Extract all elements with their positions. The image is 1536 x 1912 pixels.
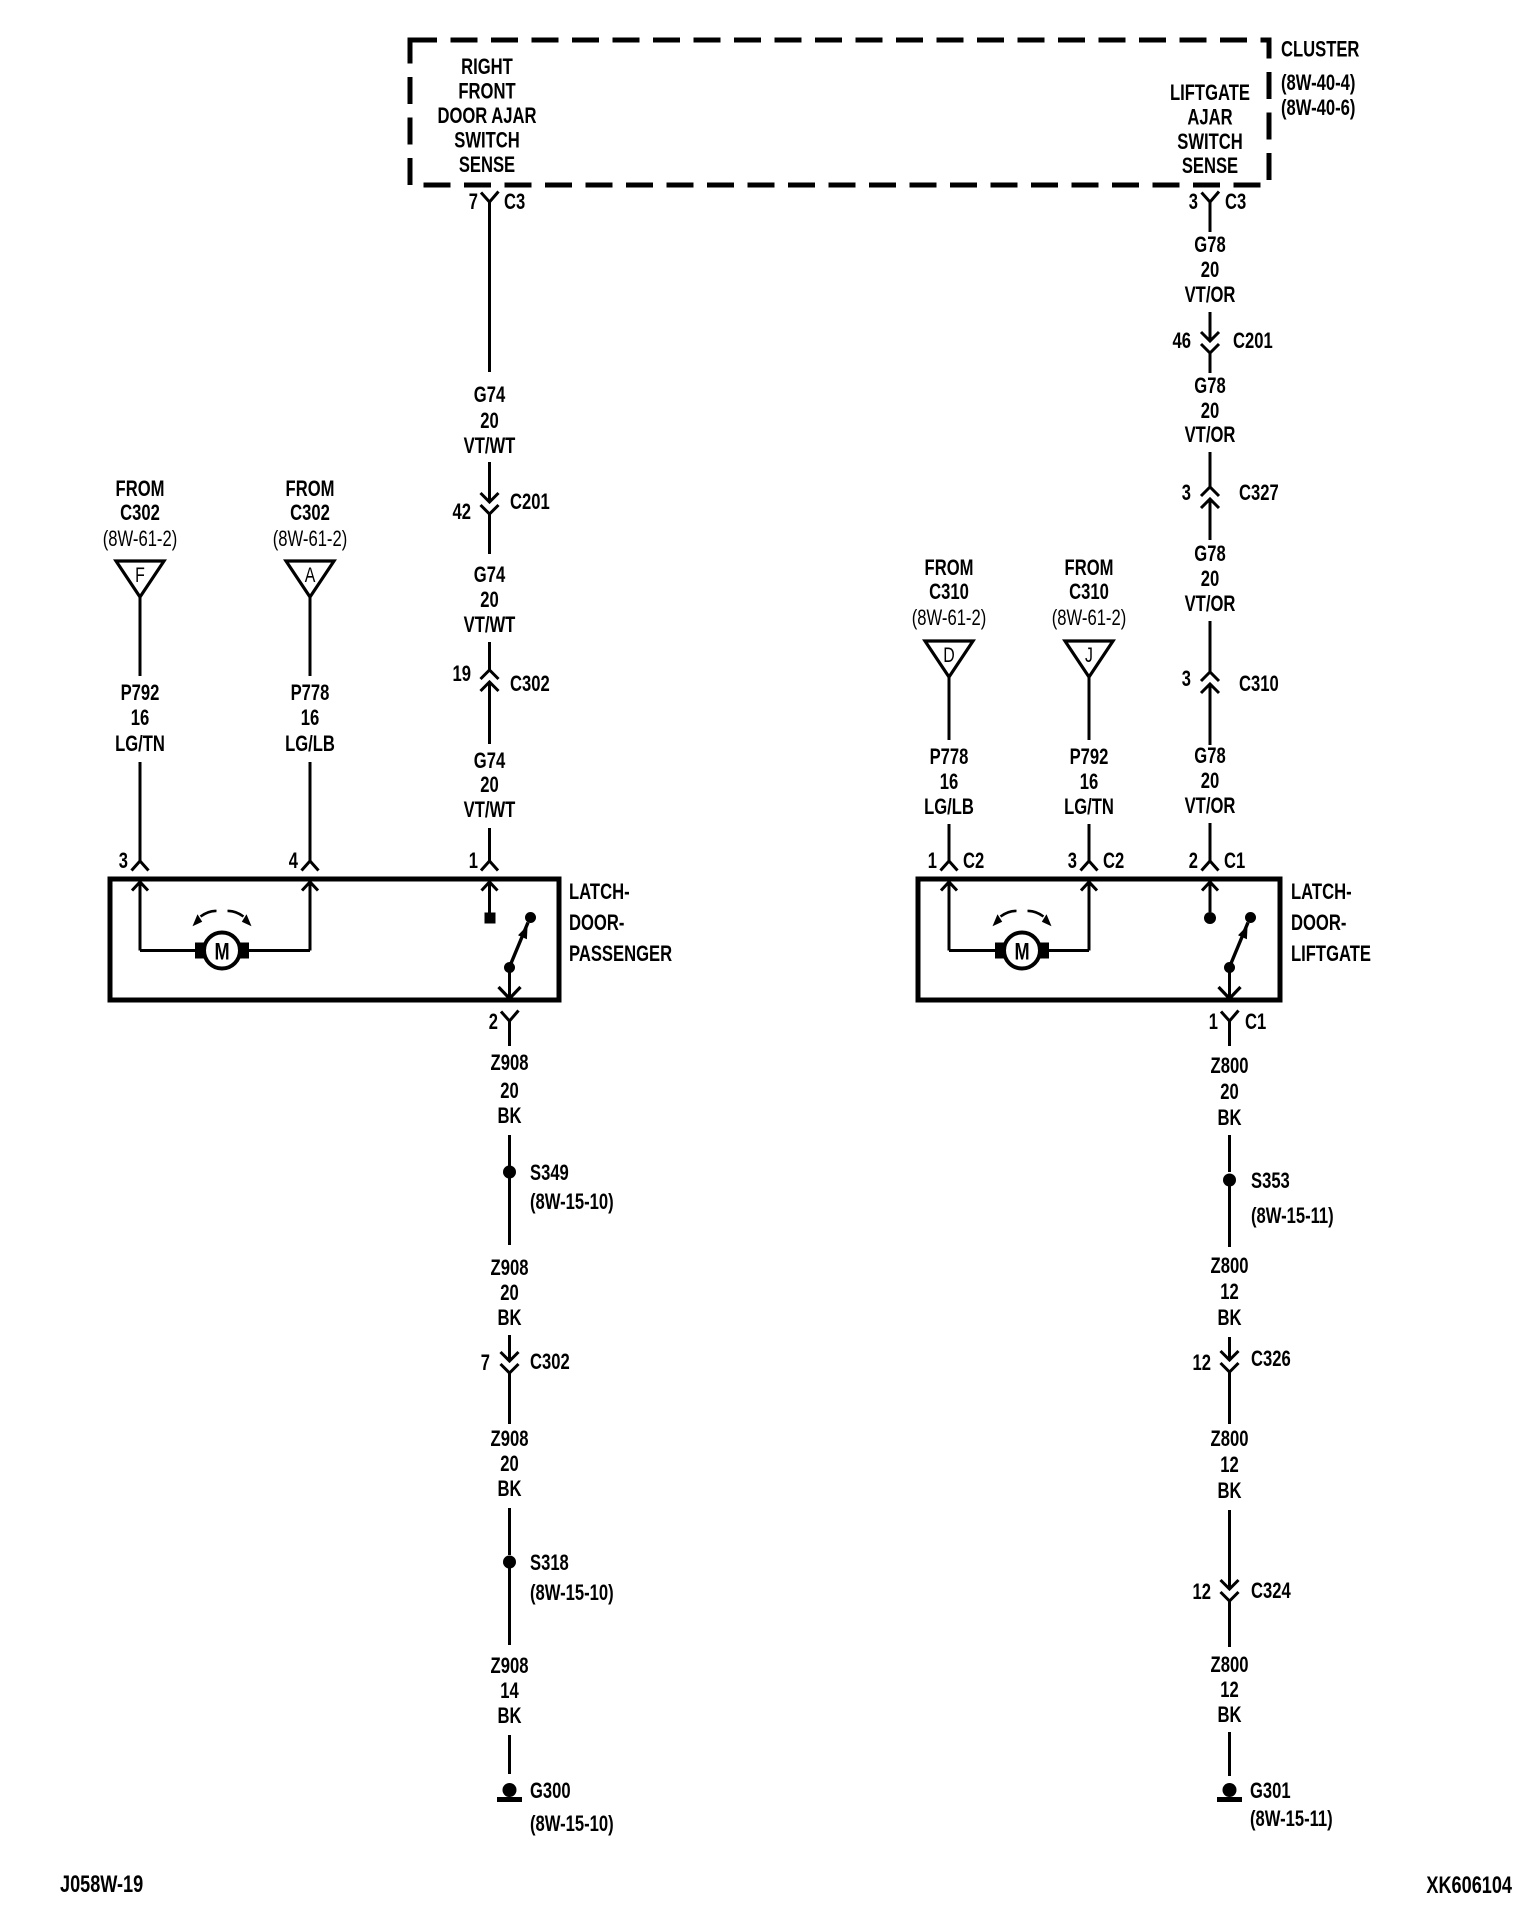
svg-text:C302: C302: [120, 500, 160, 525]
wire: [508, 1568, 511, 1645]
svg-text:BK: BK: [498, 1103, 522, 1128]
svg-text:A: A: [305, 564, 316, 587]
svg-text:P792: P792: [1070, 744, 1109, 769]
motor M passenger latch: [195, 933, 249, 969]
node RIGHT FRONT DOOR AJAR SWITCH SENSE: [437, 54, 536, 177]
wire: [508, 1135, 511, 1166]
wire label Z800 12 BK: [1211, 1426, 1249, 1503]
svg-text:16: 16: [301, 705, 320, 730]
motor M liftgate latch: [995, 933, 1049, 969]
connector C302 cavity 19: [453, 661, 550, 696]
wire label G74 20 VT/WT (middle): [464, 562, 516, 637]
wire label G74 20 VT/WT (upper): [464, 382, 516, 458]
wire: [1228, 1510, 1231, 1589]
connector C302 cavity 7: [481, 1349, 570, 1375]
splice S349: [503, 1160, 569, 1185]
svg-text:1: 1: [928, 848, 937, 873]
svg-text:2: 2: [489, 1009, 498, 1034]
svg-text:3: 3: [1182, 666, 1191, 691]
svg-text:42: 42: [453, 499, 472, 524]
svg-text:LG/LB: LG/LB: [285, 731, 335, 756]
svg-text:7: 7: [469, 189, 478, 214]
svg-text:3: 3: [1068, 848, 1077, 873]
svg-text:(8W-61-2): (8W-61-2): [1052, 605, 1127, 630]
svg-text:SWITCH: SWITCH: [454, 128, 520, 153]
svg-text:G78: G78: [1194, 743, 1225, 768]
node LIFTGATE AJAR SWITCH SENSE: [1170, 80, 1250, 178]
svg-text:BK: BK: [498, 1476, 522, 1501]
svg-text:Z800: Z800: [1211, 1426, 1249, 1451]
svg-text:Z908: Z908: [491, 1426, 529, 1451]
svg-text:J058W-19: J058W-19: [60, 1871, 143, 1898]
svg-text:LIFTGATE: LIFTGATE: [1291, 941, 1371, 966]
wire: [1228, 1135, 1231, 1172]
wire: [1209, 823, 1212, 861]
wire label Z800 20 BK: [1211, 1053, 1249, 1130]
svg-text:C302: C302: [290, 500, 330, 525]
svg-text:Z908: Z908: [491, 1255, 529, 1280]
wire label G78 20 VT/OR: [1185, 743, 1236, 818]
ground G301: [1217, 1778, 1291, 1803]
wire: [1209, 353, 1212, 373]
svg-text:14: 14: [500, 1678, 519, 1703]
drawing number XK606104: [1426, 1872, 1512, 1899]
svg-text:(8W-61-2): (8W-61-2): [103, 526, 178, 551]
svg-text:3: 3: [1182, 480, 1191, 505]
latch liftgate pin 1 C1: [1209, 1009, 1266, 1034]
latch-door-passenger label: [569, 879, 672, 966]
svg-text:G78: G78: [1194, 541, 1225, 566]
svg-text:(8W-61-2): (8W-61-2): [273, 526, 348, 551]
svg-text:BK: BK: [1218, 1702, 1242, 1727]
svg-text:FROM: FROM: [286, 476, 335, 501]
svg-text:C310: C310: [1069, 579, 1109, 604]
wire label Z908 20 BK: [491, 1255, 529, 1330]
wire label P792 16 LG/TN: [1064, 744, 1114, 819]
svg-text:C310: C310: [1239, 671, 1279, 696]
svg-text:12: 12: [1220, 1452, 1239, 1477]
svg-text:PASSENGER: PASSENGER: [569, 941, 672, 966]
svg-text:G301: G301: [1250, 1778, 1291, 1803]
wire G74 upper segment: [488, 202, 491, 372]
svg-text:C3: C3: [1225, 189, 1246, 214]
svg-text:20: 20: [500, 1280, 519, 1305]
wire label Z800 12 BK: [1211, 1652, 1249, 1727]
svg-text:SWITCH: SWITCH: [1177, 129, 1243, 154]
connector C3 pin 7 (cluster, passenger): [469, 189, 525, 214]
wire: [508, 1178, 511, 1245]
connector C326 cavity 12: [1193, 1346, 1291, 1375]
svg-text:C310: C310: [929, 579, 969, 604]
svg-text:Z800: Z800: [1211, 1253, 1249, 1278]
svg-text:12: 12: [1220, 1279, 1239, 1304]
wire: [1209, 621, 1212, 672]
svg-text:S349: S349: [530, 1160, 569, 1185]
cluster reference (8W-40-6): [1281, 95, 1355, 120]
wire: [508, 1508, 511, 1555]
svg-text:RIGHT: RIGHT: [461, 54, 513, 79]
svg-text:7: 7: [481, 1350, 490, 1375]
cluster reference (8W-40-4): [1281, 70, 1355, 95]
ajar switch liftgate: [1202, 882, 1256, 999]
svg-text:SENSE: SENSE: [459, 152, 515, 177]
wire: [508, 1021, 511, 1046]
svg-text:M: M: [1014, 939, 1029, 966]
svg-text:S318: S318: [530, 1550, 569, 1575]
off-page connector F FROM C302: [103, 476, 178, 597]
svg-text:(8W-40-6): (8W-40-6): [1281, 95, 1355, 120]
wire: [508, 1735, 511, 1774]
sheet number J058W-19: [60, 1871, 143, 1898]
svg-text:C302: C302: [510, 671, 550, 696]
svg-text:DOOR AJAR: DOOR AJAR: [437, 103, 536, 128]
ground G301 reference (8W-15-11): [1250, 1806, 1333, 1831]
rotation arrows: [993, 911, 1052, 926]
wire: [488, 682, 491, 744]
svg-text:BK: BK: [1218, 1478, 1242, 1503]
wire: [1088, 677, 1091, 740]
wire label Z908 20 BK: [491, 1050, 529, 1128]
connector C324 cavity 12: [1193, 1578, 1292, 1604]
wire: [309, 762, 312, 861]
svg-text:BK: BK: [1218, 1305, 1242, 1330]
svg-text:FROM: FROM: [1065, 555, 1114, 580]
svg-text:G78: G78: [1194, 373, 1225, 398]
wire: [488, 642, 491, 670]
wire label Z908 20 BK: [491, 1426, 529, 1501]
latch liftgate pin 2 C1: [1189, 848, 1245, 873]
svg-text:FROM: FROM: [116, 476, 165, 501]
svg-text:C3: C3: [504, 189, 525, 214]
wire: [1209, 202, 1212, 232]
svg-text:1: 1: [1209, 1009, 1218, 1034]
svg-text:LG/TN: LG/TN: [1064, 794, 1114, 819]
svg-text:VT/WT: VT/WT: [464, 797, 516, 822]
svg-text:BK: BK: [498, 1305, 522, 1330]
svg-text:SENSE: SENSE: [1182, 153, 1238, 178]
wire: [309, 597, 312, 676]
svg-text:VT/WT: VT/WT: [464, 612, 516, 637]
wire label G74 20 VT/WT (lower): [464, 748, 516, 822]
svg-text:(8W-40-4): (8W-40-4): [1281, 70, 1355, 95]
wire: [488, 828, 491, 861]
splice S349 reference (8W-15-10): [530, 1189, 614, 1214]
svg-text:LATCH-: LATCH-: [569, 879, 630, 904]
wire: [508, 1373, 511, 1424]
svg-text:CLUSTER: CLUSTER: [1281, 37, 1359, 62]
svg-text:J: J: [1085, 644, 1093, 667]
svg-text:M: M: [214, 939, 229, 966]
svg-text:BK: BK: [498, 1703, 522, 1728]
wire: [1088, 824, 1091, 861]
wire: [1228, 1372, 1231, 1424]
svg-text:Z908: Z908: [491, 1050, 529, 1075]
off-page connector J FROM C310: [1052, 555, 1127, 677]
svg-text:C2: C2: [1103, 848, 1124, 873]
svg-text:(8W-61-2): (8W-61-2): [912, 605, 987, 630]
svg-text:VT/OR: VT/OR: [1185, 793, 1236, 818]
svg-text:1: 1: [469, 848, 478, 873]
wire label P778 16 LG/LB: [924, 744, 974, 819]
latch passenger pin 2: [489, 1009, 519, 1034]
svg-text:C327: C327: [1239, 480, 1279, 505]
svg-text:G78: G78: [1194, 232, 1225, 257]
svg-text:G74: G74: [474, 382, 506, 407]
svg-text:Z908: Z908: [491, 1653, 529, 1678]
latch-door-liftgate box: [918, 879, 1280, 1000]
svg-text:S353: S353: [1251, 1168, 1290, 1193]
latch-door-passenger box: [110, 879, 559, 1000]
latch passenger pin 4: [289, 848, 319, 873]
wire label Z908 14 BK: [491, 1653, 529, 1728]
wire: [1228, 1337, 1231, 1360]
svg-text:F: F: [135, 564, 145, 587]
svg-text:12: 12: [1193, 1579, 1212, 1604]
svg-text:C326: C326: [1251, 1346, 1291, 1371]
wire label G78 20 VT/OR: [1185, 373, 1236, 447]
wire: [139, 597, 142, 676]
svg-text:16: 16: [1080, 769, 1099, 794]
latch passenger pin 1: [469, 848, 498, 873]
svg-text:G74: G74: [474, 562, 506, 587]
svg-text:20: 20: [1201, 768, 1220, 793]
svg-text:FROM: FROM: [925, 555, 974, 580]
cluster module dashed box: [410, 40, 1269, 185]
latch passenger pin 3: [119, 848, 149, 873]
svg-text:C302: C302: [530, 1349, 570, 1374]
connector C201 cavity 46: [1173, 328, 1273, 353]
wire: [1228, 1021, 1231, 1046]
svg-text:(8W-15-10): (8W-15-10): [530, 1580, 614, 1605]
svg-text:12: 12: [1193, 1350, 1212, 1375]
svg-text:(8W-15-11): (8W-15-11): [1251, 1203, 1334, 1228]
wire label P792 16 LG/TN: [115, 680, 165, 756]
svg-text:(8W-15-11): (8W-15-11): [1250, 1806, 1333, 1831]
svg-text:16: 16: [940, 769, 959, 794]
svg-text:C324: C324: [1251, 1578, 1291, 1603]
wire: [1228, 1732, 1231, 1776]
svg-text:VT/OR: VT/OR: [1185, 422, 1236, 447]
splice S318: [503, 1550, 569, 1575]
svg-text:12: 12: [1220, 1677, 1239, 1702]
svg-text:VT/OR: VT/OR: [1185, 591, 1236, 616]
wire: [139, 762, 142, 861]
off-page connector A FROM C302: [273, 476, 348, 597]
svg-text:(8W-15-10): (8W-15-10): [530, 1811, 614, 1836]
wire: [948, 824, 951, 861]
svg-text:20: 20: [500, 1078, 519, 1103]
svg-text:DOOR-: DOOR-: [1291, 910, 1346, 935]
wire label Z800 12 BK: [1211, 1253, 1249, 1330]
svg-text:C201: C201: [1233, 328, 1273, 353]
svg-text:20: 20: [1201, 566, 1220, 591]
svg-text:3: 3: [1189, 189, 1198, 214]
rotation arrows: [193, 911, 252, 926]
svg-text:VT/WT: VT/WT: [464, 433, 516, 458]
wire: [488, 462, 491, 502]
splice S318 reference (8W-15-10): [530, 1580, 614, 1605]
svg-text:C201: C201: [510, 489, 550, 514]
wire: [948, 677, 951, 740]
svg-text:Z800: Z800: [1211, 1652, 1249, 1677]
svg-text:3: 3: [119, 848, 128, 873]
svg-text:LG/LB: LG/LB: [924, 794, 974, 819]
wire label P778 16 LG/LB: [285, 680, 335, 756]
wire pin 3 to motor: [132, 882, 195, 951]
svg-text:G300: G300: [530, 1778, 571, 1803]
wire label G78 20 VT/OR: [1185, 232, 1236, 307]
splice S353: [1223, 1168, 1290, 1193]
wire: [488, 514, 491, 554]
connector C201 cavity 42: [453, 489, 550, 524]
svg-text:LATCH-: LATCH-: [1291, 879, 1352, 904]
svg-text:LIFTGATE: LIFTGATE: [1170, 80, 1250, 105]
svg-text:16: 16: [131, 705, 150, 730]
svg-text:C1: C1: [1224, 848, 1245, 873]
off-page connector D FROM C310: [912, 555, 987, 677]
svg-text:20: 20: [1201, 257, 1220, 282]
latch liftgate pin 1 C2: [928, 848, 984, 873]
svg-text:P792: P792: [121, 680, 160, 705]
svg-text:46: 46: [1173, 328, 1192, 353]
svg-text:20: 20: [1201, 398, 1220, 423]
svg-text:Z800: Z800: [1211, 1053, 1249, 1078]
cluster label CLUSTER: [1281, 37, 1359, 62]
wire: [1209, 499, 1212, 540]
wire: [1209, 452, 1212, 487]
wire: [1209, 312, 1212, 341]
wire: [508, 1335, 511, 1361]
svg-text:4: 4: [289, 848, 299, 873]
wire pin 4 to motor: [249, 882, 318, 951]
svg-text:19: 19: [453, 661, 472, 686]
wire pin 1 to motor: [941, 882, 995, 951]
svg-text:C1: C1: [1245, 1009, 1266, 1034]
svg-text:P778: P778: [291, 680, 330, 705]
svg-text:2: 2: [1189, 848, 1198, 873]
splice S353 reference (8W-15-11): [1251, 1203, 1334, 1228]
ground G300: [497, 1778, 571, 1803]
svg-text:C2: C2: [963, 848, 984, 873]
svg-text:AJAR: AJAR: [1187, 104, 1232, 129]
ground G300 reference (8W-15-10): [530, 1811, 614, 1836]
svg-text:20: 20: [500, 1451, 519, 1476]
latch-door-liftgate label: [1291, 879, 1371, 966]
ajar switch passenger: [482, 882, 537, 999]
svg-text:P778: P778: [930, 744, 969, 769]
svg-text:G74: G74: [474, 748, 506, 773]
svg-text:DOOR-: DOOR-: [569, 910, 624, 935]
wire: [1209, 684, 1212, 745]
svg-text:20: 20: [480, 408, 499, 433]
svg-text:20: 20: [480, 587, 499, 612]
svg-text:20: 20: [480, 772, 499, 797]
svg-text:(8W-15-10): (8W-15-10): [530, 1189, 614, 1214]
wire pin 3 to motor: [1049, 882, 1097, 951]
latch liftgate pin 3 C2: [1068, 848, 1124, 873]
svg-text:XK606104: XK606104: [1426, 1872, 1512, 1899]
svg-text:FRONT: FRONT: [458, 79, 516, 104]
wire label G78 20 VT/OR: [1185, 541, 1236, 616]
wire: [1228, 1186, 1231, 1247]
connector C3 pin 3 (cluster, liftgate): [1189, 189, 1246, 214]
svg-text:D: D: [943, 644, 955, 667]
connector C310 cavity 3: [1182, 666, 1279, 696]
svg-text:VT/OR: VT/OR: [1185, 282, 1236, 307]
svg-text:LG/TN: LG/TN: [115, 731, 165, 756]
svg-text:BK: BK: [1218, 1105, 1242, 1130]
wire: [1228, 1601, 1231, 1647]
svg-text:20: 20: [1220, 1079, 1239, 1104]
connector C327 cavity 3: [1182, 480, 1279, 508]
